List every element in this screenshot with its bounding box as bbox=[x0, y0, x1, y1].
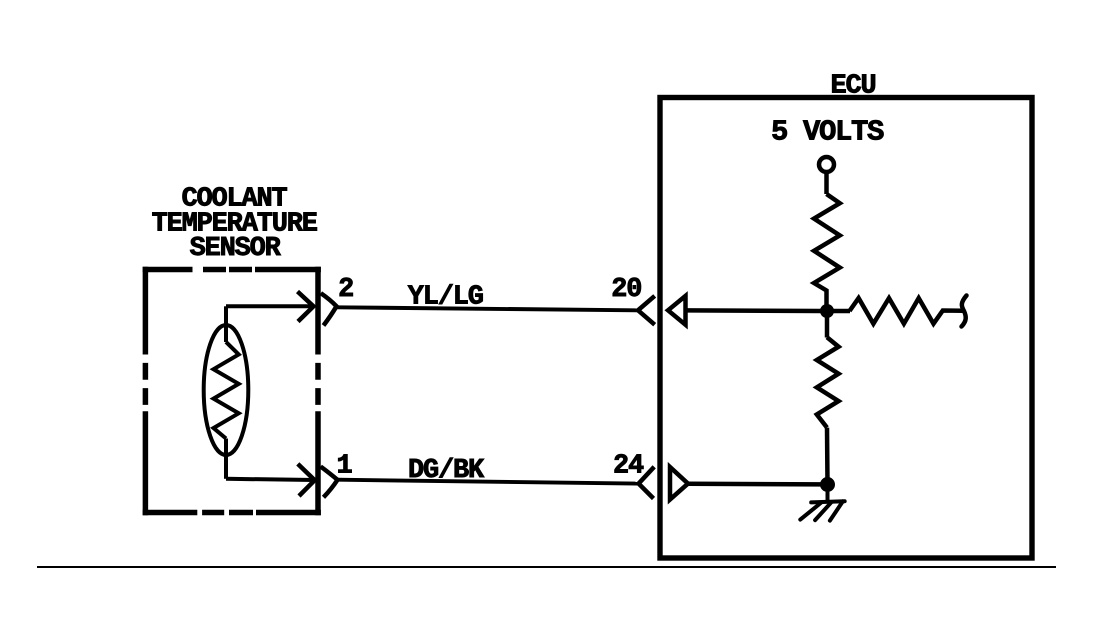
wire sensor internal top bbox=[226, 304, 314, 308]
bottom edge bbox=[143, 510, 321, 516]
svg-text:DG/BK: DG/BK bbox=[408, 456, 485, 486]
pin 2 connector socket (curved) bbox=[321, 293, 337, 325]
pin 1 connector arrow (sensor side) bbox=[298, 464, 315, 496]
svg-text:24: 24 bbox=[613, 452, 644, 482]
svg-text:ECU: ECU bbox=[830, 72, 875, 102]
svg-text:2: 2 bbox=[338, 275, 353, 305]
sensor thermistor zigzag bbox=[214, 342, 239, 439]
pin 2 connector arrow (sensor side) bbox=[298, 292, 314, 322]
ECU box U1 bbox=[660, 98, 1032, 559]
wire sensor internal bottom bbox=[226, 479, 315, 480]
pin 24 connector arrow bbox=[639, 467, 655, 499]
pin 24 triangle (ECU side) bbox=[670, 467, 688, 500]
pin 20 triangle (ECU side) bbox=[668, 296, 686, 325]
sensor box (dashed) bbox=[143, 267, 321, 516]
ground bbox=[800, 501, 844, 520]
resistor R3 (pull-down) bbox=[817, 337, 839, 427]
wire YL/LG bbox=[337, 307, 638, 310]
resistor R1 (pull-up) bbox=[814, 194, 840, 308]
separator line bbox=[37, 566, 1056, 568]
wire terminal to resistor R1 bbox=[824, 172, 829, 194]
wire pin20 to node A bbox=[686, 308, 821, 313]
wire sensor top lead bbox=[224, 306, 228, 342]
left edge bbox=[143, 267, 149, 516]
svg-text:1: 1 bbox=[336, 452, 352, 482]
resistor R2 end hook bbox=[962, 296, 967, 327]
wire sensor bottom lead bbox=[224, 439, 228, 479]
sensor element ellipse bbox=[204, 325, 249, 455]
svg-text:SENSOR: SENSOR bbox=[190, 234, 282, 264]
top edge bbox=[143, 267, 321, 273]
wire node to resistor R3 bbox=[825, 311, 830, 338]
wire node to resistor R2 bbox=[827, 309, 850, 314]
pin 20 connector arrow bbox=[638, 296, 655, 325]
wire R3 to ground node bbox=[825, 428, 830, 484]
wire node to ground bbox=[826, 485, 830, 502]
resistor R2 (horizontal) bbox=[850, 298, 964, 324]
node A junction bbox=[820, 304, 834, 318]
node B junction (ground node) bbox=[820, 477, 835, 492]
svg-text:20: 20 bbox=[611, 275, 641, 305]
wire pin24 to node B bbox=[688, 482, 821, 487]
pin 1 connector socket (curved) bbox=[321, 467, 338, 498]
right edge bbox=[315, 267, 321, 516]
svg-text:YL/LG: YL/LG bbox=[408, 283, 483, 313]
wire DG/BK bbox=[338, 480, 639, 484]
svg-text:5 VOLTS: 5 VOLTS bbox=[771, 116, 884, 149]
5V supply terminal bbox=[819, 157, 834, 172]
